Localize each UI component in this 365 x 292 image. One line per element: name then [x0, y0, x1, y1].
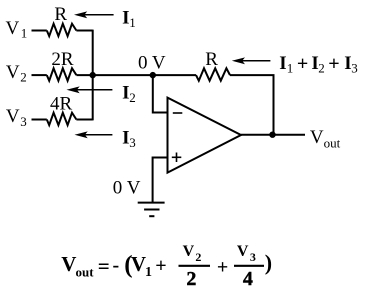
ground	[138, 203, 165, 217]
svg-text:1: 1	[145, 265, 152, 280]
wire 2R to summing node	[76, 74, 196, 76]
svg-text:0 V: 0 V	[113, 178, 141, 199]
resistor 4R	[47, 113, 77, 125]
op-amp plus sign	[172, 153, 182, 163]
wire 4R to bus corner	[76, 119, 92, 121]
svg-text:V: V	[131, 252, 146, 276]
svg-text:V: V	[61, 252, 76, 276]
label I2	[122, 82, 136, 105]
junction dot bus/V2	[90, 72, 96, 78]
svg-text:+: +	[217, 256, 228, 278]
svg-text:V: V	[6, 62, 20, 83]
svg-text:0 V: 0 V	[138, 53, 166, 74]
op-amp minus sign	[173, 112, 183, 114]
node dot output	[269, 132, 275, 138]
wire V3 to 4R	[32, 119, 47, 121]
wire feedback to output	[230, 75, 274, 135]
svg-text:2: 2	[20, 70, 27, 85]
svg-text:1: 1	[129, 15, 136, 30]
svg-text:3: 3	[20, 114, 27, 129]
svg-text:2R: 2R	[51, 49, 74, 70]
svg-text:V: V	[310, 127, 324, 148]
label Vout	[310, 127, 341, 151]
svg-text:=: =	[98, 254, 110, 278]
arrow I1	[74, 11, 114, 18]
svg-text:3: 3	[250, 250, 256, 264]
wire V2 to 2R	[32, 74, 47, 76]
node V2 label	[6, 62, 27, 85]
svg-text:3: 3	[351, 60, 358, 75]
svg-text:1: 1	[287, 60, 294, 75]
wire V1 to R	[32, 30, 47, 32]
svg-text:2: 2	[318, 60, 325, 75]
svg-text:R: R	[54, 4, 67, 25]
svg-text:V: V	[237, 243, 249, 260]
wire op-amp output	[241, 134, 305, 136]
svg-text:2: 2	[129, 90, 136, 105]
svg-text:R: R	[205, 49, 218, 70]
op-amp U1	[168, 98, 242, 173]
svg-text:V: V	[183, 243, 195, 260]
wire noninverting input to ground	[153, 158, 168, 203]
svg-text:-: -	[113, 254, 120, 276]
svg-text:2: 2	[186, 268, 196, 290]
resistor 2R	[47, 68, 77, 80]
svg-text:): )	[265, 250, 272, 275]
resistor R (top input)	[47, 24, 77, 36]
wire R to bus corner	[76, 30, 92, 32]
label I1 + I2 + I3	[279, 53, 358, 76]
arrow I2	[67, 86, 113, 93]
wire vertical bus	[92, 30, 94, 121]
svg-text:4R: 4R	[50, 93, 73, 114]
arrow I3	[75, 131, 113, 138]
svg-text:+: +	[155, 255, 166, 277]
svg-text:1: 1	[21, 26, 28, 41]
node V3 label	[6, 106, 27, 129]
svg-text:V: V	[6, 106, 20, 127]
svg-text:out: out	[76, 264, 95, 279]
svg-text:4: 4	[243, 268, 253, 290]
svg-text:V: V	[6, 18, 20, 39]
wire summing node to inverting input	[153, 75, 168, 112]
svg-text:+: +	[297, 53, 308, 75]
node V1 label	[6, 18, 28, 41]
node dot summing node	[150, 72, 156, 78]
arrow I1+I2+I3	[232, 57, 271, 64]
svg-text:3: 3	[129, 135, 136, 150]
label I1	[122, 7, 136, 30]
formula Vout = - (V1 + V2/2 + V3/4)	[61, 243, 272, 290]
label I3	[122, 127, 136, 150]
svg-text:out: out	[324, 136, 341, 151]
svg-text:+: +	[328, 53, 339, 75]
svg-text:2: 2	[195, 250, 201, 264]
svg-text:I: I	[279, 53, 286, 74]
resistor R (feedback)	[196, 68, 230, 80]
